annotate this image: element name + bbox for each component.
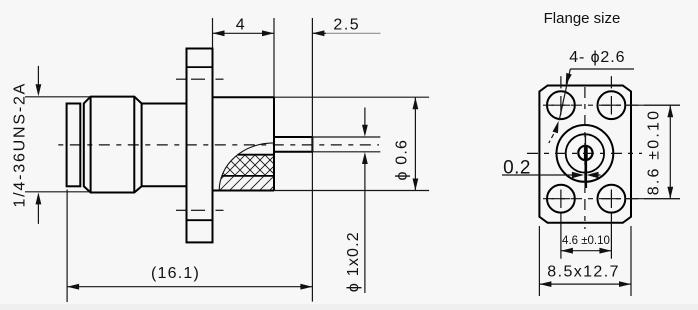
svg-text:4: 4 <box>236 17 245 34</box>
svg-text:4.6 ±0.10: 4.6 ±0.10 <box>562 235 610 247</box>
svg-text:4- ϕ2.6: 4- ϕ2.6 <box>569 49 625 66</box>
svg-text:(16.1): (16.1) <box>151 265 200 282</box>
svg-text:Flange size: Flange size <box>544 10 621 27</box>
svg-text:2.5: 2.5 <box>333 17 360 34</box>
svg-text:1/4-36UNS-2A: 1/4-36UNS-2A <box>12 82 29 208</box>
svg-text:ϕ 0.6: ϕ 0.6 <box>394 139 411 181</box>
svg-text:8.5x12.7: 8.5x12.7 <box>547 264 620 281</box>
svg-text:ϕ 1x0.2: ϕ 1x0.2 <box>345 231 362 292</box>
svg-text:8.6 ±0.10: 8.6 ±0.10 <box>646 109 663 195</box>
